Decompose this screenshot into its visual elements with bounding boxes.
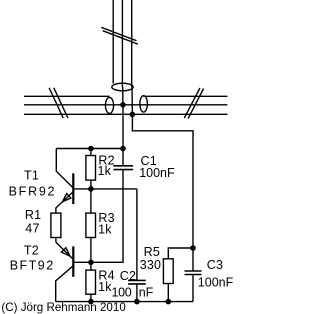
dipole bottom edge line (24, 113, 228, 115)
svg-text:nF: nF (139, 286, 154, 300)
transistor T2 collector (56, 266, 73, 302)
node rail C1 feed dot (121, 146, 125, 150)
wire C3 leads (192, 248, 194, 302)
node R4 ground dot (89, 300, 93, 304)
svg-text:(C) Jörg Rehmann 2010: (C) Jörg Rehmann 2010 (1, 301, 125, 314)
dipole left break mark (49, 88, 68, 118)
resistor R3 (86, 189, 96, 262)
wire T2 base line (73, 261, 91, 263)
wire center conductor down to C1 (122, 105, 124, 166)
dipole middle line (24, 104, 228, 106)
svg-text:R1: R1 (25, 208, 41, 222)
resistor R1 (51, 213, 61, 242)
coax feedline shield right line (131, 0, 133, 87)
resistor R4 (86, 262, 96, 301)
svg-text:T1: T1 (24, 168, 39, 182)
node T1 base junction dot (89, 187, 93, 191)
coax feedline shield left line (112, 0, 114, 84)
node feed junction dot shield (130, 112, 134, 116)
svg-text:100nF: 100nF (198, 275, 234, 289)
svg-text:R5: R5 (144, 245, 160, 259)
node right rail dot (191, 246, 195, 250)
transistor T2 emitter arrow (62, 248, 71, 257)
dipole right tube end ellipse (140, 96, 148, 112)
svg-text:100nF: 100nF (139, 166, 175, 180)
svg-text:T2: T2 (24, 244, 39, 258)
svg-text:C2: C2 (120, 269, 136, 283)
node feed junction dot center conductor (121, 103, 125, 107)
svg-text:330: 330 (140, 258, 161, 272)
wire shield down and corner (132, 114, 193, 248)
transistor T1 base bar (72, 173, 74, 204)
svg-text:1k: 1k (98, 164, 112, 178)
resistor R5 (163, 259, 173, 302)
svg-text:1k: 1k (98, 223, 112, 237)
dipole top edge line (24, 95, 228, 97)
wire C1 bottom lead down to T2 base wire (91, 170, 123, 263)
svg-text:C3: C3 (207, 258, 223, 272)
svg-text:BFT92: BFT92 (10, 259, 55, 273)
node R5 ground dot (166, 300, 170, 304)
transistor T1 emitter (56, 192, 73, 213)
node rail R2 dot (89, 146, 93, 150)
wire T1 base line (73, 188, 137, 190)
transistor T1 emitter arrow (63, 194, 71, 202)
coax break mark (101, 27, 138, 44)
dipole right break mark (184, 88, 203, 119)
wire T1 collector vertical (56, 149, 73, 188)
svg-text:BFR92: BFR92 (9, 184, 57, 198)
coax end ellipse (112, 83, 133, 91)
wire top rail collector to C1 (56, 148, 123, 150)
node T2 base junction dot (89, 260, 93, 264)
transistor T2 base bar (72, 246, 74, 276)
capacitor C2 (128, 280, 146, 284)
capacitor C1 (113, 166, 133, 170)
wire C2 bottom lead (136, 284, 138, 302)
wire ground rail (56, 301, 193, 303)
capacitor C3 (185, 271, 202, 275)
wire C2 top lead vertical (136, 189, 138, 281)
svg-text:1k: 1k (98, 280, 112, 294)
coax feedline center conductor (121, 0, 123, 87)
wire R5 top wire (168, 248, 193, 259)
svg-text:47: 47 (25, 222, 39, 236)
svg-text:100: 100 (112, 286, 132, 300)
transistor T2 emitter (56, 242, 73, 259)
resistor R2 (86, 149, 96, 189)
node C2 ground dot (135, 300, 139, 304)
dipole left tube end ellipse (105, 97, 113, 113)
